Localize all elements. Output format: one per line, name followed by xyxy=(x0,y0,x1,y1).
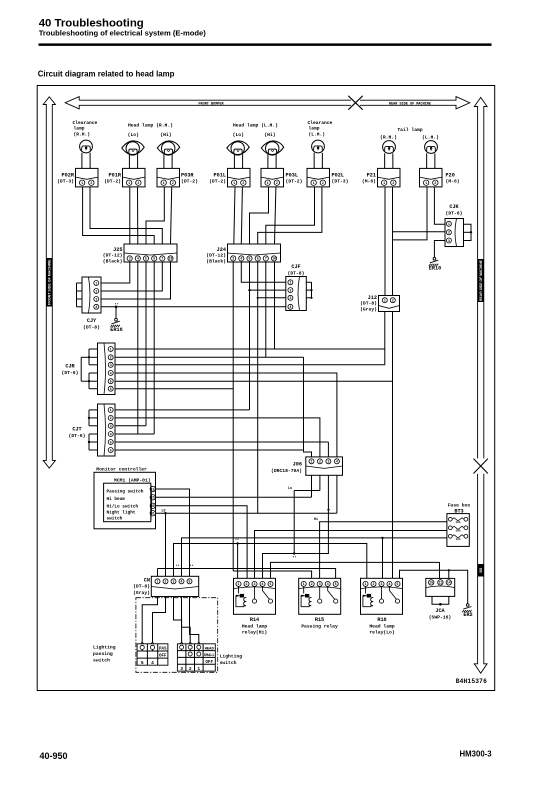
svg-text:Fuse box: Fuse box xyxy=(448,502,471,508)
CJK right bracket xyxy=(464,224,472,240)
svg-text:3: 3 xyxy=(448,239,450,243)
connector P02L xyxy=(307,168,330,187)
wire bus row to R15 p5 xyxy=(158,569,336,579)
svg-text:Lighting: Lighting xyxy=(220,654,243,660)
svg-text:2: 2 xyxy=(322,181,324,185)
wire J24 pin2 to CJF pin1 xyxy=(241,262,285,282)
svg-text:1: 1 xyxy=(163,181,165,185)
svg-text:(DT-6): (DT-6) xyxy=(69,433,86,439)
svg-text:1: 1 xyxy=(425,181,427,185)
svg-text:5: 5 xyxy=(270,582,272,586)
relay R15 xyxy=(299,578,341,614)
wire CN w5 to lighting sw p3 xyxy=(190,597,199,643)
wire CJR pin3 row to J12 pin1 xyxy=(115,364,385,366)
svg-text:(DT-3): (DT-3) xyxy=(332,178,349,184)
wire CJY pin1 to J25 pin1 xyxy=(101,262,130,283)
wire P20 right to CJK pin1 xyxy=(434,187,445,224)
svg-text:6: 6 xyxy=(110,387,112,391)
wire bus row J24p1 to R15 p1 xyxy=(233,571,311,578)
svg-text:2: 2 xyxy=(392,181,394,185)
svg-text:**: ** xyxy=(189,564,193,569)
svg-text:2: 2 xyxy=(373,582,375,586)
svg-text:2: 2 xyxy=(110,416,112,420)
wire lamp leads xyxy=(128,154,130,168)
svg-text:Passing switch: Passing switch xyxy=(107,489,144,494)
wire CJK pin3 to ER10 xyxy=(434,241,445,258)
svg-text:Lo: Lo xyxy=(288,487,292,491)
connector P01R xyxy=(123,168,146,187)
svg-text:6: 6 xyxy=(153,257,155,261)
svg-text:4: 4 xyxy=(151,660,154,666)
svg-text:(L.H.): (L.H.) xyxy=(422,135,439,141)
wire lamp leads xyxy=(233,154,235,168)
svg-text:(DT-6): (DT-6) xyxy=(62,370,79,376)
svg-text:31: 31 xyxy=(151,512,155,516)
head lamp R.H. Lo xyxy=(122,141,144,155)
wire MC pin1 to CN pin5 xyxy=(155,489,189,576)
header rule xyxy=(39,43,492,46)
svg-text:1: 1 xyxy=(313,181,315,185)
wire CJY pin2 to J25 pin5 xyxy=(101,262,162,291)
svg-text:CJF: CJF xyxy=(291,264,300,270)
switch assembly dashed box xyxy=(136,598,218,673)
wire CN w2 to passing sw p2 xyxy=(153,597,166,643)
svg-text:SMALL: SMALL xyxy=(204,654,215,658)
svg-text:B5: B5 xyxy=(479,568,483,573)
svg-text:(Black): (Black) xyxy=(103,258,123,264)
svg-text:1: 1 xyxy=(128,181,130,185)
svg-text:2: 2 xyxy=(392,299,394,303)
lighting switch xyxy=(177,644,215,671)
svg-text:2: 2 xyxy=(311,582,313,586)
svg-text:passing: passing xyxy=(93,651,113,657)
wire CJT pin3 row xyxy=(115,425,146,427)
wire CJT pin4 row xyxy=(115,433,154,435)
wire CJT pin2 to J06 w2 xyxy=(115,418,320,457)
svg-text:6: 6 xyxy=(110,448,112,452)
wire P02R left to J25 pin4 xyxy=(83,187,155,244)
svg-text:(DT-8): (DT-8) xyxy=(83,324,100,330)
wire CJF pin3 tap from J24 pin4 line xyxy=(258,297,286,299)
svg-text:Clearance: Clearance xyxy=(308,120,333,126)
svg-text:(Hi): (Hi) xyxy=(160,132,171,138)
svg-text:10: 10 xyxy=(272,257,276,261)
wire CJT pin5 to J06 w3 xyxy=(115,441,328,443)
svg-text:3: 3 xyxy=(173,580,175,584)
svg-text:(DT-8): (DT-8) xyxy=(288,270,305,276)
svg-text:1: 1 xyxy=(157,580,159,584)
svg-text:R16: R16 xyxy=(377,617,386,623)
wire J06 w2 below Lo loop xyxy=(294,490,320,492)
connector P03L xyxy=(261,168,284,187)
svg-text:OFF: OFF xyxy=(159,655,167,659)
svg-text:MCM1 (AMP-01): MCM1 (AMP-01) xyxy=(114,478,151,484)
wire MC pin3 to R14 pin2 xyxy=(155,506,247,579)
svg-text:(Lo): (Lo) xyxy=(128,132,139,138)
svg-text:FRONT BUMPER: FRONT BUMPER xyxy=(198,102,224,106)
svg-text:(DT-3): (DT-3) xyxy=(57,178,74,184)
connector CJK xyxy=(445,219,464,247)
svg-text:CJK: CJK xyxy=(449,204,459,210)
svg-text:3: 3 xyxy=(110,424,112,428)
svg-text:ER16: ER16 xyxy=(110,327,122,333)
svg-text:(Gray): (Gray) xyxy=(133,590,150,596)
wire CJY pin4 ground row to CJF pin4 xyxy=(101,306,286,308)
svg-text:R15: R15 xyxy=(315,617,324,623)
svg-text:2: 2 xyxy=(165,580,167,584)
svg-text:4: 4 xyxy=(95,305,97,309)
X break on top arrow xyxy=(348,96,362,110)
svg-text:REAR SIDE OF MACHINE: REAR SIDE OF MACHINE xyxy=(479,259,483,301)
svg-text:P20: P20 xyxy=(446,172,455,178)
B5 tag on right arrow xyxy=(478,564,484,577)
svg-text:2: 2 xyxy=(242,181,244,185)
head lamp L.H. Hi xyxy=(261,141,283,155)
svg-text:Head lamp (L.H.): Head lamp (L.H.) xyxy=(233,123,278,129)
svg-text:3: 3 xyxy=(110,363,112,367)
svg-text:J24: J24 xyxy=(217,247,226,253)
svg-text:CJR: CJR xyxy=(65,364,75,370)
svg-text:4: 4 xyxy=(327,582,329,586)
connector CJT xyxy=(98,404,116,456)
svg-text:Hi/Lo switch: Hi/Lo switch xyxy=(107,504,139,509)
svg-text:2: 2 xyxy=(95,289,97,293)
svg-text:4: 4 xyxy=(389,582,391,586)
svg-text:P02R: P02R xyxy=(62,172,75,178)
svg-text:11: 11 xyxy=(438,581,442,585)
connector P01L xyxy=(228,168,251,187)
wire J25 pin2 drop xyxy=(137,262,139,434)
svg-text:PAS: PAS xyxy=(159,648,167,652)
svg-text:1: 1 xyxy=(311,460,313,464)
wire lamp leads xyxy=(384,153,386,168)
wire CJR pin5 to J12 pin2 riser and R16 xyxy=(115,380,393,382)
svg-text:Troubleshooting of electrical: Troubleshooting of electrical system (E-… xyxy=(39,28,207,37)
svg-text:HM300-3: HM300-3 xyxy=(460,750,493,759)
connector J24 xyxy=(228,244,281,262)
svg-text:6: 6 xyxy=(257,257,259,261)
wire P21 right to CJK pin2 and J12 pin2 xyxy=(392,187,394,296)
svg-text:10A: 10A xyxy=(455,529,460,532)
svg-text:30: 30 xyxy=(151,504,155,508)
svg-text:2: 2 xyxy=(289,288,291,292)
wire CJR pin4 to J06 w4 xyxy=(115,373,337,457)
svg-text:Hi beam: Hi beam xyxy=(107,497,126,502)
CJT left stubs xyxy=(89,409,98,411)
wire J25 pin3 drop xyxy=(145,262,147,426)
head lamp L.H. Lo xyxy=(227,141,249,155)
svg-text:Head lamp (R.H.): Head lamp (R.H.) xyxy=(128,123,173,129)
wire P03L left to J24 pin3 xyxy=(250,187,269,244)
svg-text:(R.H.): (R.H.) xyxy=(74,131,91,137)
svg-text:2: 2 xyxy=(434,181,436,185)
svg-text:P02L: P02L xyxy=(332,172,344,178)
wire P20 left to J12 vertical xyxy=(393,187,428,240)
svg-text:P01R: P01R xyxy=(109,172,122,178)
X break on right arrow xyxy=(473,458,489,473)
svg-text:**: ** xyxy=(235,538,239,543)
svg-text:lamp: lamp xyxy=(74,126,85,132)
svg-text:4: 4 xyxy=(110,432,112,436)
svg-text:3: 3 xyxy=(319,582,321,586)
connector P20 xyxy=(420,168,443,187)
svg-text:OFF: OFF xyxy=(205,661,213,665)
CJF right stubs xyxy=(306,281,311,283)
svg-text:5: 5 xyxy=(397,582,399,586)
wire lamp leads xyxy=(426,153,428,168)
wire lamp leads xyxy=(163,154,165,168)
svg-text:1: 1 xyxy=(303,582,305,586)
svg-text:3: 3 xyxy=(129,257,131,261)
wire bus row CN p3 to R16 p1 xyxy=(174,544,367,579)
wire J24 pin4 long drop xyxy=(257,262,259,513)
svg-text:3: 3 xyxy=(327,460,329,464)
svg-text:1: 1 xyxy=(197,666,200,672)
svg-text:4: 4 xyxy=(110,371,112,375)
svg-text:4: 4 xyxy=(336,460,338,464)
wire P03R left to J25 pin3 xyxy=(146,187,164,244)
svg-text:(DT-2): (DT-2) xyxy=(181,178,198,184)
wire fuse3 row to CN pin4 and R16 pin3 xyxy=(182,538,447,576)
connector J25 xyxy=(124,244,177,262)
relay R14 xyxy=(234,578,276,614)
svg-text:FRONT SIDE OF MACHINE: FRONT SIDE OF MACHINE xyxy=(48,259,52,305)
wire fuse2 row to R14 pin3 xyxy=(255,531,447,579)
rear-side horizontal arrow segment xyxy=(360,97,470,109)
svg-text:7: 7 xyxy=(161,257,163,261)
svg-text:JCA: JCA xyxy=(435,608,445,614)
wire CJR pin2 row to J06 w1 riser xyxy=(115,356,304,358)
svg-text:2: 2 xyxy=(448,231,450,235)
connector P21 xyxy=(378,168,401,187)
wire R16 p5 to JCA p3 to ER2 xyxy=(400,570,468,604)
svg-text:Hi: Hi xyxy=(314,517,318,522)
svg-text:2: 2 xyxy=(319,460,321,464)
svg-text:1: 1 xyxy=(95,281,97,285)
svg-text:**: ** xyxy=(292,556,296,561)
svg-text:2: 2 xyxy=(246,582,248,586)
connector P02R xyxy=(76,168,99,187)
svg-text:5: 5 xyxy=(110,440,112,444)
svg-text:(DT-8): (DT-8) xyxy=(360,301,377,307)
wire P01L to J24 pins 1,2 xyxy=(234,187,235,244)
wire J06 w3 below to R14 pin4 xyxy=(263,475,329,578)
wire lamp leads xyxy=(81,153,83,169)
wire CN pin1 feed xyxy=(157,569,159,577)
ground ER16 xyxy=(115,318,118,321)
svg-text:7: 7 xyxy=(265,257,267,261)
wire CJF pin2 tap from J24 pin3 line xyxy=(250,289,286,291)
svg-text:14: 14 xyxy=(447,581,451,585)
svg-text:(DRC18-70A): (DRC18-70A) xyxy=(271,468,302,474)
ground ER2 xyxy=(466,604,469,607)
wire P02R right to J25 pin5 xyxy=(90,187,162,244)
svg-text:3: 3 xyxy=(232,257,234,261)
connector J12 xyxy=(379,296,400,312)
wire P02L left to J24 pin5 xyxy=(266,187,315,244)
tail lamp L.H. xyxy=(425,141,438,154)
svg-text:2: 2 xyxy=(90,181,92,185)
svg-text:2: 2 xyxy=(137,181,139,185)
svg-text:10A: 10A xyxy=(455,538,460,541)
wire CJR pin1 row to J12 pin1 xyxy=(115,348,385,350)
connector P03R xyxy=(157,168,180,187)
svg-text:1: 1 xyxy=(233,181,235,185)
svg-text:CN: CN xyxy=(144,578,150,584)
connector CJY xyxy=(82,277,101,313)
ground ER10 xyxy=(433,257,436,260)
svg-text:1: 1 xyxy=(448,222,450,226)
wire J25 pin4 drop to CJT pin4 row xyxy=(153,262,155,434)
svg-text:ER2: ER2 xyxy=(463,612,472,618)
wire P03R right to J25 pin6 xyxy=(171,187,172,244)
svg-text:2: 2 xyxy=(276,181,278,185)
svg-text:(DT-2): (DT-2) xyxy=(104,178,121,184)
wire lamp leads xyxy=(313,153,315,169)
svg-text:Head lamp: Head lamp xyxy=(242,623,268,629)
svg-text:4: 4 xyxy=(181,580,183,584)
svg-text:(DT-6): (DT-6) xyxy=(446,210,463,216)
svg-text:1: 1 xyxy=(238,582,240,586)
svg-text:J12: J12 xyxy=(368,295,377,301)
svg-text:(Black): (Black) xyxy=(206,258,226,264)
svg-text:switch: switch xyxy=(93,658,110,664)
svg-text:1: 1 xyxy=(81,181,83,185)
svg-text:5: 5 xyxy=(145,257,147,261)
connector CJR xyxy=(98,343,116,395)
relay R16 xyxy=(361,578,403,614)
svg-text:Clearance: Clearance xyxy=(73,120,98,126)
svg-text:(Lo): (Lo) xyxy=(233,132,244,138)
svg-text:5: 5 xyxy=(249,257,251,261)
svg-text:1: 1 xyxy=(365,582,367,586)
svg-text:CJY: CJY xyxy=(87,318,97,324)
svg-text:(Gray): (Gray) xyxy=(360,306,377,312)
clearance lamp L.H. xyxy=(312,140,325,153)
wire MC pin2 to J06 w1 below xyxy=(155,496,311,498)
connector J06 xyxy=(306,457,343,475)
svg-text:2: 2 xyxy=(172,181,174,185)
lighting passing switch xyxy=(137,644,168,665)
wire CN w3 to lighting sw p1 xyxy=(174,597,182,643)
wire J24 pin1 long drop xyxy=(232,262,234,571)
svg-text:(Hi): (Hi) xyxy=(264,132,275,138)
wire CN pin2 feed from LS row xyxy=(164,512,166,514)
svg-text:1: 1 xyxy=(384,299,386,303)
svg-text:40-950: 40-950 xyxy=(40,751,68,761)
svg-text:REAR SIDE OF MACHINE: REAR SIDE OF MACHINE xyxy=(389,102,431,106)
wire P03L right to J24 pin6 xyxy=(275,187,276,244)
diagram border frame xyxy=(37,86,495,691)
svg-text:P21: P21 xyxy=(367,172,376,178)
wire CJT pin6 to J06 w1 riser xyxy=(115,449,304,451)
svg-text:3: 3 xyxy=(180,666,183,672)
svg-text:relay(Lo): relay(Lo) xyxy=(369,630,395,636)
svg-text:Night light: Night light xyxy=(107,511,136,516)
svg-text:2: 2 xyxy=(189,666,192,672)
svg-text:Circuit diagram related to hea: Circuit diagram related to head lamp xyxy=(38,69,175,78)
svg-text:4: 4 xyxy=(289,305,291,309)
svg-text:1: 1 xyxy=(110,408,112,412)
CJY left stubs xyxy=(77,282,83,284)
svg-text:switch: switch xyxy=(220,660,237,666)
svg-text:(DT-12): (DT-12) xyxy=(103,253,123,259)
svg-text:(SWP-16): (SWP-16) xyxy=(429,614,452,620)
svg-text:R14: R14 xyxy=(250,617,259,623)
svg-text:3: 3 xyxy=(289,296,291,300)
svg-text:switch: switch xyxy=(107,516,123,521)
svg-text:P03R: P03R xyxy=(181,172,194,178)
left vertical double arrow FRONT SIDE OF MACHINE xyxy=(43,97,55,468)
svg-text:Head lamp: Head lamp xyxy=(369,623,395,629)
wire P01R to J25 pins 1,2 xyxy=(129,187,131,244)
wire J24 pin3 long drop xyxy=(249,262,251,410)
svg-text:HEAD: HEAD xyxy=(205,647,215,651)
svg-text:lamp: lamp xyxy=(309,126,320,132)
svg-text:10A: 10A xyxy=(455,521,460,524)
svg-text:5: 5 xyxy=(335,582,337,586)
head lamp R.H. Hi xyxy=(157,141,179,155)
wire J24 pin5 drop xyxy=(265,262,267,357)
svg-text:(L.H.): (L.H.) xyxy=(309,131,326,137)
top horizontal double arrow xyxy=(65,97,351,109)
connector CN xyxy=(151,576,198,596)
wire bus row R14 p5 to JCA p2 xyxy=(271,562,440,578)
svg-text:1: 1 xyxy=(383,181,385,185)
wire CJY pin3 to J25 pin6 xyxy=(101,262,171,299)
switch pin nubs xyxy=(141,642,144,644)
svg-text:P01L: P01L xyxy=(214,172,226,178)
svg-text:1: 1 xyxy=(289,281,291,285)
svg-text:Lighting: Lighting xyxy=(93,645,116,651)
wire MC pin4 LS row to J06 w4 below xyxy=(155,512,337,514)
svg-text:(M-6): (M-6) xyxy=(362,178,376,184)
CJR left stubs xyxy=(89,348,98,350)
svg-text:4: 4 xyxy=(137,257,139,261)
svg-text:5: 5 xyxy=(189,580,191,584)
svg-text:P03L: P03L xyxy=(286,172,298,178)
svg-text:16: 16 xyxy=(151,487,155,491)
svg-text:1: 1 xyxy=(267,181,269,185)
svg-text:4: 4 xyxy=(262,582,264,586)
connector CJF xyxy=(286,277,307,311)
wire lamp leads xyxy=(267,154,269,168)
svg-text:5: 5 xyxy=(141,660,144,666)
svg-text:J06: J06 xyxy=(293,462,302,468)
svg-text:(DT-12): (DT-12) xyxy=(206,253,226,259)
wire fuse1 row to R15 pin3 xyxy=(320,522,447,579)
svg-text:Passing relay: Passing relay xyxy=(301,623,338,629)
wire ER16 tap xyxy=(115,306,118,309)
svg-text:3: 3 xyxy=(254,582,256,586)
svg-text:B4H15376: B4H15376 xyxy=(456,678,487,685)
clearance lamp R.H. xyxy=(80,140,93,153)
svg-text:**: ** xyxy=(175,564,179,569)
svg-text:ER10: ER10 xyxy=(429,266,441,272)
svg-text:15: 15 xyxy=(429,581,433,585)
svg-text:(R.H.): (R.H.) xyxy=(380,135,397,141)
wire CN w1 to passing sw p1 xyxy=(142,597,157,643)
svg-text:CJT: CJT xyxy=(72,427,81,433)
svg-text:(DT-8): (DT-8) xyxy=(133,584,150,590)
wire P02L right to J24 pin4 xyxy=(258,187,322,244)
wire CJT pin1 to J24 pin3 line xyxy=(115,409,250,411)
svg-text:29: 29 xyxy=(151,496,155,500)
svg-text:5: 5 xyxy=(110,380,112,384)
svg-text:1: 1 xyxy=(110,347,112,351)
tail lamp R.H. xyxy=(383,141,396,154)
svg-text:relay(Hi): relay(Hi) xyxy=(242,630,268,636)
